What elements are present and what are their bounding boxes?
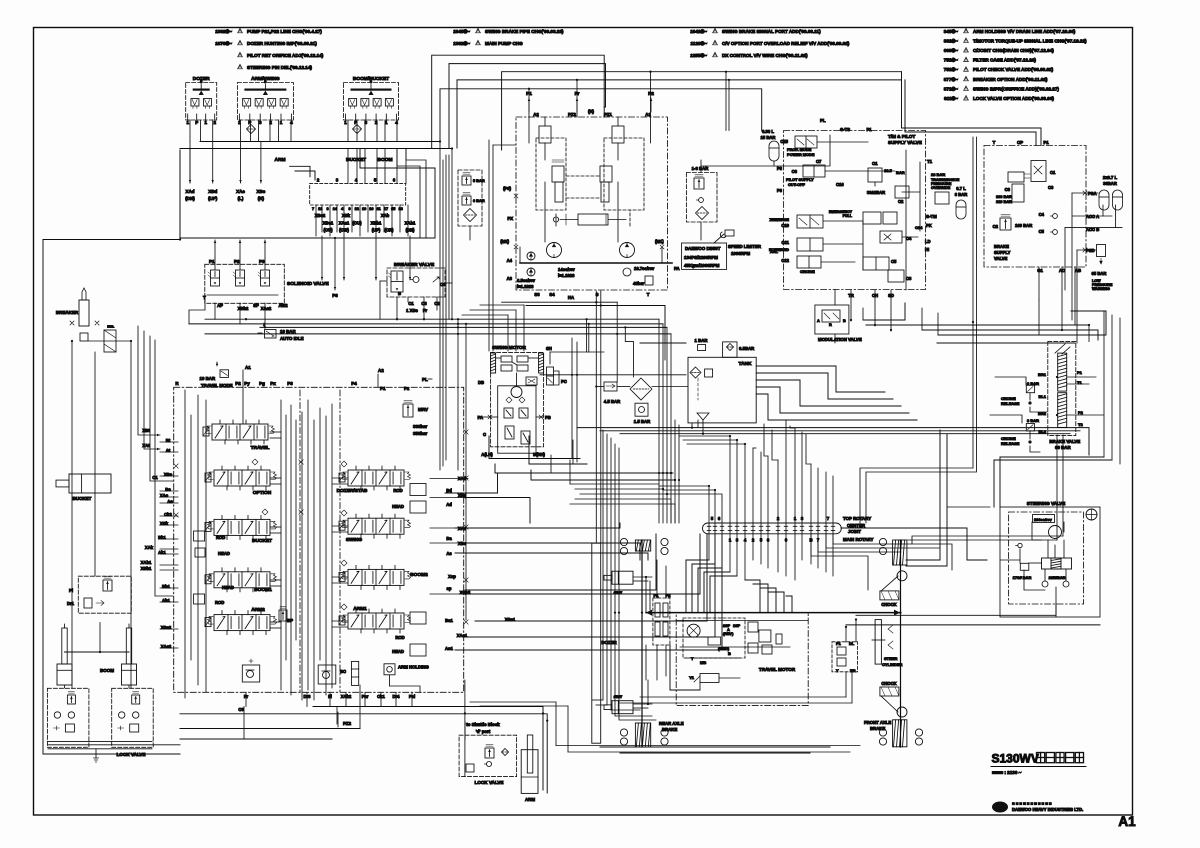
svg-text:S3: S3: [534, 292, 540, 297]
CV port labels left bank: [141, 428, 174, 649]
wire boom cyl link: [65, 623, 130, 653]
svg-text:PL: PL: [820, 118, 826, 123]
svg-text:1-3 BAR: 1-3 BAR: [692, 166, 710, 171]
svg-text:JOINT: JOINT: [848, 529, 861, 534]
svg-text:MB: MB: [700, 660, 706, 665]
speed limiter: [714, 230, 762, 256]
main control valve boundary: [174, 381, 464, 692]
svg-text:P1: P1: [209, 259, 215, 264]
svg-text:HA: HA: [568, 295, 574, 300]
svg-text:OPTION: OPTION: [253, 490, 272, 496]
wire right header drop: [902, 72, 1042, 146]
svg-text:4.5 BAR: 4.5 BAR: [604, 399, 621, 404]
svg-text:LOCK VALVE: LOCK VALVE: [117, 752, 146, 757]
svg-text:MAIN ROTARY: MAIN ROTARY: [843, 537, 874, 542]
svg-text:PC: PC: [561, 379, 567, 384]
svg-text:C15: C15: [780, 139, 788, 144]
svg-text:1.5 BAR: 1.5 BAR: [634, 419, 651, 424]
svg-text:ARM/SWING: ARM/SWING: [251, 76, 280, 82]
TM valves cluster: [829, 210, 937, 298]
svg-text:i=1.1026: i=1.1026: [558, 273, 575, 278]
junction dots on buses: [71, 71, 1090, 722]
svg-text:P8: P8: [332, 293, 338, 298]
svg-text:BUCKET: BUCKET: [73, 496, 92, 501]
svg-text:MAIN PUMP CHG: MAIN PUMP CHG: [485, 41, 523, 46]
wire return filter row: [595, 385, 688, 387]
svg-text:VALVE: VALVE: [994, 256, 1008, 261]
travel motor assembly: [676, 613, 808, 706]
ARM2 BP relief: [279, 607, 293, 624]
svg-text:C/V OPTION PORT OVERLOAD RELIE: C/V OPTION PORT OVERLOAD RELIEF V/V ADD(…: [722, 41, 850, 46]
svg-text:P1: P1: [380, 386, 386, 391]
svg-text:TANK: TANK: [739, 361, 753, 367]
svg-text:PULL: PULL: [843, 214, 853, 218]
svg-text:1041➐~: 1041➐~: [690, 28, 707, 34]
wire rotary verticals upper: [709, 424, 833, 523]
svg-text:P1: P1: [836, 641, 842, 646]
svg-text:BUCKET: BUCKET: [252, 538, 272, 544]
svg-text:P2: P2: [648, 91, 654, 97]
wire accumulator links: [1065, 191, 1122, 343]
svg-text:8: 8: [327, 207, 329, 211]
svg-text:5 BAR: 5 BAR: [473, 178, 485, 183]
svg-text:P: P: [195, 120, 198, 125]
pilot bus wires: [180, 120, 452, 201]
svg-text:AW2: AW2: [278, 303, 288, 308]
svg-text:A: A: [817, 319, 820, 323]
svg-text:A2: A2: [378, 368, 384, 373]
main pump assembly boundary: [516, 117, 668, 290]
svg-text:DL: DL: [849, 641, 855, 646]
svg-text:PILOT CHECK VALVE ADD('98.03.0: PILOT CHECK VALVE ADD('98.03.02): [973, 67, 1054, 72]
pilot control station ARM/SWING: [237, 76, 293, 125]
svg-text:XAb1: XAb1: [405, 221, 416, 226]
svg-text:MRV: MRV: [418, 407, 429, 412]
svg-text:751➐~: 751➐~: [944, 66, 959, 72]
svg-text:1676➐~: 1676➐~: [215, 40, 232, 46]
svg-text:A4: A4: [507, 258, 513, 263]
svg-text:BREAKER VALVE: BREAKER VALVE: [394, 262, 435, 268]
wire breaker valve feeds: [380, 281, 452, 319]
svg-text:3 BAR: 3 BAR: [1027, 418, 1039, 423]
svg-text:65 BAR: 65 BAR: [1092, 271, 1107, 276]
svg-text:(L): (L): [238, 196, 244, 201]
svg-text:C10: C10: [781, 223, 789, 228]
wire travel motor bottom: [600, 645, 830, 753]
svg-text:170# BAR: 170# BAR: [1013, 575, 1032, 580]
MRV relief valve: [378, 368, 432, 436]
C10 reverse valve: [770, 215, 823, 228]
svg-text:P6: P6: [777, 166, 783, 171]
wire tank fan: [756, 366, 917, 420]
pump regulator right: [600, 126, 624, 202]
shuttle block output labels: [315, 205, 416, 233]
svg-text:(P0): (P0): [503, 186, 512, 191]
svg-text:(R): (R): [258, 196, 265, 201]
svg-text:ARM: ARM: [525, 797, 535, 802]
svg-text:Ad: Ad: [446, 502, 452, 507]
CV sub valves ROD/HEAD left: [194, 531, 234, 605]
svg-text:G-TS: G-TS: [840, 127, 850, 132]
svg-text:(M2): (M2): [500, 239, 509, 244]
svg-text:16: 16: [362, 207, 366, 211]
svg-text:(REV): (REV): [723, 632, 734, 636]
C12 cruise valve: [781, 256, 821, 274]
CV spool SWING: [339, 514, 411, 543]
svg-text:877➐~: 877➐~: [944, 76, 959, 82]
svg-text:ROD: ROD: [395, 635, 404, 640]
svg-text:13.5: 13.5: [884, 168, 893, 173]
svg-text:871➐~: 871➐~: [944, 85, 959, 91]
wire steering links: [841, 528, 1100, 642]
svg-text:160 BAR: 160 BAR: [1015, 223, 1032, 228]
svg-text:SP: SP: [253, 303, 259, 308]
svg-text:Bd: Bd: [446, 488, 452, 493]
svg-text:1128➐~: 1128➐~: [691, 40, 708, 46]
svg-text:C6: C6: [1005, 187, 1011, 192]
svg-text:(R): (R): [588, 109, 595, 114]
svg-text:XBb2: XBb2: [238, 306, 249, 311]
svg-text:C5: C5: [1039, 229, 1045, 234]
svg-text:P1: P1: [1043, 140, 1049, 145]
wire solenoid pilots up: [214, 240, 267, 258]
svg-text:C11: C11: [782, 240, 790, 245]
wire rotary to travel motor: [686, 560, 792, 613]
svg-text:BOOM1: BOOM1: [254, 587, 272, 593]
front axle: [864, 538, 923, 747]
arm holding valve Pi Dr1: [67, 576, 131, 613]
svg-text:OVERRIDE: OVERRIDE: [931, 186, 951, 190]
svg-text:sp: sp: [447, 586, 452, 591]
svg-text:PSA: PSA: [1088, 191, 1097, 196]
svg-text:XBR: XBR: [770, 217, 779, 222]
wire right nest steps: [835, 308, 938, 343]
svg-text:12: 12: [355, 207, 359, 211]
svg-text:A2: A2: [533, 112, 539, 117]
svg-text:Xsp: Xsp: [448, 574, 456, 579]
svg-text:PILOT RET ORIFICE ADJ('00.12.1: PILOT RET ORIFICE ADJ('00.12.14): [247, 53, 324, 58]
svg-text:BC: BC: [340, 669, 346, 674]
wire breaker drops: [69, 341, 131, 688]
filter below BOOM/BUCKET: [353, 125, 362, 134]
svg-text:ACC A: ACC A: [1086, 214, 1099, 219]
svg-text:ARM1: ARM1: [353, 606, 367, 612]
CV spool BUCKET: [205, 515, 277, 544]
svg-text:XBd: XBd: [208, 189, 217, 194]
wire left verticals under tank: [592, 430, 640, 710]
svg-text:T: T: [647, 292, 650, 297]
wire left bundle to CV ports: [138, 326, 243, 596]
svg-text:C8: C8: [906, 276, 912, 281]
CV spool BOOM2: [339, 565, 428, 589]
svg-text:DAEWOO DB58T: DAEWOO DB58T: [685, 246, 721, 251]
CV spool BOOM1: [205, 568, 277, 593]
svg-text:C: C: [483, 432, 486, 437]
center joint rotary: [703, 516, 874, 543]
svg-text:A3: A3: [507, 276, 513, 281]
svg-text:C12: C12: [781, 258, 789, 263]
svg-text:C2: C2: [993, 224, 999, 229]
svg-text:B: B: [398, 291, 401, 296]
svg-text:Pg: Pg: [259, 381, 265, 386]
svg-text:BRAKE: BRAKE: [994, 244, 1009, 249]
svg-text:SH: SH: [546, 346, 552, 351]
svg-text:45Kgm/1800RPM: 45Kgm/1800RPM: [684, 263, 720, 268]
wire dozer column extras: [614, 444, 656, 720]
svg-text:C1: C1: [408, 301, 414, 306]
brake supply valve boundary: [984, 140, 1086, 267]
svg-text:LOCK VALVE OPTION ADD('99.03.0: LOCK VALVE OPTION ADD('99.03.06): [973, 96, 1054, 101]
wire steering valve internals: [1000, 522, 1066, 617]
svg-text:R: R: [829, 323, 832, 327]
wire brake valve port links: [1039, 280, 1104, 415]
svg-text:G-TM: G-TM: [926, 214, 937, 219]
svg-text:C/JOINT CHG(DRAIN CHG)('97.12.: C/JOINT CHG(DRAIN CHG)('97.12.04): [973, 48, 1054, 53]
svg-text:S130WV: S130WV: [992, 752, 1039, 766]
svg-text:Dr1: Dr1: [67, 601, 75, 606]
svg-text:ARM: ARM: [275, 157, 286, 163]
svg-text:XBc2: XBc2: [315, 213, 326, 218]
filter below ARM/SWING: [247, 125, 256, 134]
svg-text:XBb1: XBb1: [141, 566, 152, 571]
C11 forward valve: [769, 238, 823, 254]
svg-text:LD: LD: [925, 239, 931, 244]
steer pilot block: [832, 641, 858, 673]
travel mode valve 19 BAR: [200, 362, 233, 388]
chock top: [880, 576, 899, 607]
svg-text:P1: P1: [1077, 370, 1083, 375]
svg-text:i=1.1026: i=1.1026: [517, 284, 534, 289]
wire dozer links: [633, 560, 666, 708]
svg-text:2x0.7 L: 2x0.7 L: [1103, 175, 1118, 180]
CV internal verticals middle: [281, 400, 332, 700]
wire shuttle lower verticals: [316, 213, 411, 280]
svg-text:0.5BAR: 0.5BAR: [739, 346, 755, 351]
svg-text:SWING BRAKE SIGNAL PORT ADD('9: SWING BRAKE SIGNAL PORT ADD('99.06.11): [722, 29, 821, 34]
brake supply valve label: [994, 244, 1081, 273]
svg-text:BR1: BR1: [1038, 372, 1047, 377]
svg-text:C7: C7: [816, 159, 822, 164]
svg-text:A1: A1: [1118, 814, 1136, 829]
dozer cylinder bottom: [604, 695, 633, 714]
wire swing motor right verticals: [540, 338, 686, 462]
svg-text:C3: C3: [238, 707, 244, 712]
rotary joint pin ticks: [707, 526, 835, 530]
wire cruise dots drops: [990, 377, 1047, 452]
svg-text:ROD: ROD: [393, 488, 402, 493]
svg-text:C1: C1: [1050, 170, 1056, 175]
wire pilot header drops right: [290, 166, 315, 180]
svg-text:14cc/rev: 14cc/rev: [558, 267, 575, 272]
svg-text:Px: Px: [270, 381, 276, 386]
svg-text:28 BAR: 28 BAR: [931, 172, 945, 177]
wire rotary verticals lower: [709, 534, 833, 580]
CV spool stubs: [270, 432, 348, 628]
svg-text:XBk: XBk: [342, 213, 351, 218]
svg-text:SWING MOTOR: SWING MOTOR: [492, 345, 527, 350]
svg-text:10.7cc/rev: 10.7cc/rev: [634, 266, 655, 271]
swing motor: [477, 345, 604, 457]
wire vertical CV feeds: [440, 142, 466, 621]
pressure switch PSD 65 BAR: [1086, 245, 1113, 292]
rear axle: [620, 538, 683, 747]
svg-text:PSD: PSD: [1086, 248, 1095, 253]
pilot line junction box: [180, 149, 435, 239]
svg-text:C3: C3: [1048, 185, 1054, 190]
accumulator 0.36L 15 BAR: [761, 129, 779, 161]
svg-text:BUCKET: BUCKET: [346, 157, 366, 163]
pump regulator sub-boxes: [520, 117, 662, 263]
lock valve left pair: [47, 688, 153, 757]
svg-text:DB: DB: [478, 380, 484, 385]
svg-text:A(LH): A(LH): [481, 452, 493, 457]
wire 1-3bar filter drop: [701, 135, 830, 240]
svg-text:Ba: Ba: [446, 536, 452, 541]
boom cylinders: [57, 624, 137, 685]
svg-text:BP: BP: [287, 618, 293, 623]
svg-text:1255➐~: 1255➐~: [690, 52, 707, 58]
wire lock valve grounds: [65, 685, 130, 762]
svg-text:6.5cc/rev: 6.5cc/rev: [517, 278, 536, 283]
svg-text:0.36 L: 0.36 L: [762, 129, 774, 134]
hydraulic tank: [688, 338, 756, 423]
svg-text:18: 18: [398, 207, 402, 211]
steer cylinder: [872, 620, 903, 667]
svg-text:T: T: [203, 295, 206, 300]
svg-text:P2: P2: [234, 259, 240, 264]
svg-text:B(RH): B(RH): [533, 452, 545, 457]
svg-text:(OU): (OU): [352, 221, 362, 226]
svg-text:BOOM/BUCKET: BOOM/BUCKET: [353, 76, 389, 82]
solenoid valve block: [203, 258, 329, 311]
svg-text:REAR AXLE: REAR AXLE: [659, 721, 684, 726]
svg-text:1 XBs: 1 XBs: [406, 308, 418, 313]
svg-text:■■■■ : 2130 ~: ■■■■ : 2130 ~: [992, 770, 1022, 775]
svg-text:FILTER CASE ADD('97.12.26): FILTER CASE ADD('97.12.26): [973, 58, 1036, 63]
chock bottom: [880, 681, 899, 712]
svg-text:225#BAR: 225#BAR: [1049, 576, 1066, 580]
CV bottom port labels: [238, 694, 415, 727]
svg-text:10: 10: [369, 207, 373, 211]
modulation valve: [815, 305, 862, 342]
svg-text:30BAR: 30BAR: [1103, 181, 1117, 186]
C1 reducing valve: [867, 161, 909, 204]
svg-text:6 BAR: 6 BAR: [473, 198, 485, 203]
svg-text:PL: PL: [422, 377, 428, 382]
svg-text:SPEED LIMITER: SPEED LIMITER: [728, 244, 762, 249]
company name: [1012, 801, 1083, 812]
lock valve bottom: [459, 735, 516, 785]
svg-text:P2: P2: [1078, 410, 1084, 415]
svg-text:(M1): (M1): [655, 239, 664, 244]
svg-text:As: As: [446, 551, 452, 556]
svg-text:P3: P3: [287, 381, 293, 386]
svg-text:DOZER: DOZER: [193, 76, 210, 82]
title korean simulated: [1037, 753, 1084, 763]
svg-text:HEAD: HEAD: [392, 649, 404, 654]
pump ports: [526, 91, 654, 117]
wire top bus nest: [432, 55, 902, 150]
axle drive line: [646, 610, 900, 616]
svg-text:SUPPLY VALVE: SUPPLY VALVE: [888, 140, 922, 145]
svg-text:T2: T2: [1078, 422, 1083, 427]
svg-text:SWING IMPR(ORIFFICE ADD)('98.0: SWING IMPR(ORIFFICE ADD)('98.02.27): [973, 86, 1059, 91]
svg-text:Y1: Y1: [689, 675, 695, 680]
return filter 1-3 BAR: [686, 166, 717, 222]
arm cylinder: [521, 735, 538, 802]
breaker valve block: [387, 262, 446, 313]
svg-text:BREAKER: BREAKER: [56, 310, 79, 315]
wire right side nest: [863, 137, 1106, 343]
auto idle valve 19 BAR: [258, 323, 304, 341]
svg-text:BRAKE VALVE: BRAKE VALVE: [1049, 439, 1080, 444]
svg-text:PZ2: PZ2: [568, 112, 576, 117]
svg-text:CRUISE: CRUISE: [800, 269, 815, 274]
wire CV left port stubs: [160, 442, 178, 648]
svg-text:TOP ROTARY: TOP ROTARY: [843, 516, 871, 521]
svg-text:C14: C14: [915, 225, 923, 230]
CV bottom check filters: [242, 659, 358, 685]
svg-text:ARM2: ARM2: [251, 607, 265, 613]
filter block 5-6 BAR: [458, 170, 485, 240]
svg-text:381➐~: 381➐~: [944, 37, 959, 43]
svg-text:B: B: [728, 651, 731, 656]
svg-text:7: 7: [312, 207, 314, 211]
steering valve assembly: [1000, 501, 1100, 617]
svg-text:HEAD: HEAD: [222, 585, 234, 590]
svg-text:ARM HOLDING V/V DRAIN LINE ADD: ARM HOLDING V/V DRAIN LINE ADD('97.10.06…: [973, 29, 1076, 34]
svg-text:751➐~: 751➐~: [944, 57, 959, 63]
svg-text:BRAKE: BRAKE: [662, 727, 677, 732]
CV check diamonds: [252, 459, 347, 610]
svg-text:CP: CP: [1017, 140, 1023, 145]
svg-text:PX: PX: [507, 216, 513, 221]
svg-text:SWING BRAKE PIPE CHG('00.03.23: SWING BRAKE PIPE CHG('00.03.23): [485, 29, 564, 34]
svg-text:9: 9: [348, 207, 350, 211]
svg-text:CUT-OFF: CUT-OFF: [788, 182, 805, 187]
wire CV bottom drops: [180, 680, 547, 793]
breaker hammer: [56, 288, 116, 352]
svg-text:ROD: ROD: [215, 600, 224, 605]
wire solenoid block feeds: [189, 295, 265, 327]
svg-text:(DN): (DN): [406, 228, 415, 233]
svg-text:HEAD: HEAD: [218, 551, 230, 556]
svg-text:17: 17: [384, 207, 388, 211]
bucket cylinder: [56, 474, 111, 501]
svg-text:C16: C16: [836, 182, 844, 187]
svg-text:STEERING PIN DEL('00.12.14): STEERING PIN DEL('00.12.14): [247, 65, 312, 70]
svg-text:PA: PA: [477, 415, 483, 420]
wire swing motor links: [489, 436, 675, 480]
svg-text:Py: Py: [244, 381, 250, 386]
svg-text:1900RPM: 1900RPM: [731, 251, 751, 256]
svg-text:CHOCK: CHOCK: [881, 602, 896, 607]
svg-text:XAL: XAL: [770, 249, 779, 254]
svg-text:(CR): (CR): [385, 228, 394, 233]
svg-text:SUPPLY: SUPPLY: [994, 250, 1011, 255]
svg-text:33±2BAR: 33±2BAR: [867, 190, 885, 195]
svg-text:Ao1: Ao1: [445, 646, 454, 651]
CV spool ARM1: [339, 606, 411, 633]
svg-text:AB: AB: [1075, 268, 1081, 273]
svg-text:8 BAR: 8 BAR: [955, 192, 968, 197]
svg-text:C5: C5: [891, 259, 897, 264]
svg-text:PK: PK: [926, 223, 932, 228]
svg-text:A1: A1: [245, 365, 251, 370]
28 BAR transmission override: [931, 172, 960, 204]
shuttle note: [465, 722, 500, 740]
wire bottom rails: [470, 702, 860, 752]
